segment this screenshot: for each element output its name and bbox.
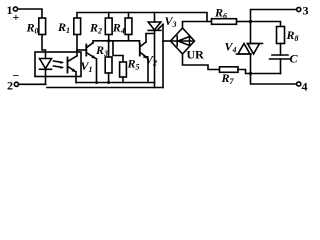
wire terminal1 to R0 xyxy=(18,9,42,18)
resistor R0 xyxy=(39,18,46,35)
resistor R7 xyxy=(220,67,239,73)
resistor R3 xyxy=(105,41,112,83)
node 1 terminal xyxy=(13,7,17,11)
wire V2 collector to V3 cathode xyxy=(146,34,155,43)
node 4 terminal xyxy=(297,82,301,86)
svg-text:−: − xyxy=(13,69,20,83)
wire V1 collector node line xyxy=(93,41,140,44)
wire UR bottom vertex to R7 xyxy=(183,54,220,70)
node 2 terminal xyxy=(14,82,18,86)
wire R8 to C xyxy=(280,44,282,56)
wire V3 gate to UR left vertex and down to rail B xyxy=(162,24,164,87)
wire junction to C bottom xyxy=(251,73,281,75)
svg-text:2: 2 xyxy=(7,79,13,93)
top rail xyxy=(77,13,207,22)
svg-text:4: 4 xyxy=(302,80,308,94)
capacitor C xyxy=(270,55,291,74)
wire UR top vertex to R6 node xyxy=(183,22,212,29)
svg-text:3: 3 xyxy=(303,4,309,18)
wire R6 node to R8 xyxy=(251,22,281,27)
optocoupler box xyxy=(35,52,81,77)
transistor V1 xyxy=(77,43,97,59)
resistor R2 xyxy=(105,13,112,41)
wire LED cathode to terminal 2 xyxy=(19,83,46,85)
wire V1 emitter to rail A xyxy=(96,59,98,83)
optocoupler phototransistor xyxy=(68,56,78,73)
wire opto emitter down to rail A xyxy=(75,72,77,83)
resistor R8 xyxy=(277,27,285,44)
junction V1 emitter rail A xyxy=(95,81,98,84)
junction node 3 xyxy=(249,20,252,23)
wire opto collector up / R1 lead / V1 base node xyxy=(76,35,78,56)
rail B bottom xyxy=(47,87,163,89)
wire R7 to bottom junction xyxy=(238,70,251,74)
wire R6 to junction xyxy=(237,21,250,23)
junction R3 rail A xyxy=(107,81,110,84)
resistor R1 xyxy=(74,18,81,35)
wire junction to terminal 4 xyxy=(251,74,297,85)
svg-text:UR: UR xyxy=(187,48,205,62)
svg-text:+: + xyxy=(13,10,20,24)
optocoupler LED xyxy=(40,59,52,85)
resistor R5 xyxy=(113,41,126,83)
resistor R6 xyxy=(212,19,237,25)
svg-text:C: C xyxy=(290,52,299,66)
junction node 4 xyxy=(249,72,252,75)
junction R2-node xyxy=(107,39,110,42)
rail A internal ground xyxy=(76,82,155,84)
resistor R4 xyxy=(125,13,132,41)
node 3 terminal xyxy=(297,7,301,11)
wire V2 emitter to rail A xyxy=(147,58,149,82)
transistor V2 xyxy=(140,42,148,59)
bridge rectifier UR xyxy=(163,28,195,54)
protector V4 xyxy=(237,22,263,74)
optocoupler light arrows xyxy=(54,61,65,69)
thyristor V3 xyxy=(148,13,163,88)
wire R0 to LED xyxy=(42,35,46,59)
wire junction to terminal 3 xyxy=(251,10,297,22)
